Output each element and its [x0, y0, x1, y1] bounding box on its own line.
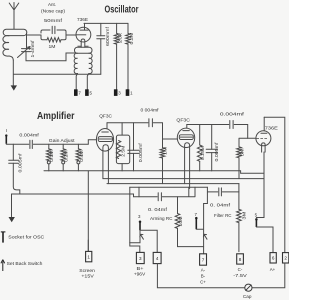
- resistor 0.4M gain adjust tap: [76, 144, 81, 171]
- resistor 10M arming: [175, 197, 203, 247]
- label 0.2M: [129, 32, 134, 45]
- wire: pin 7 to terminal 7 line: [196, 204, 203, 254]
- svg-text:Gain Adjust: Gain Adjust: [49, 138, 76, 143]
- label 1M: [49, 44, 56, 49]
- resistor 5M grid leak output tube: [237, 138, 248, 178]
- screen supply vertical wire to terminal 1: [87, 171, 89, 251]
- socket pin terminal 5 (oscillator): [85, 89, 92, 96]
- socket pin terminal 3 (oscillator): [114, 89, 121, 96]
- svg-text:B+: B+: [137, 266, 145, 271]
- wire: tank node to grid box: [27, 34, 42, 36]
- label 1M grid: [162, 146, 167, 155]
- legend text Set Back Switch: [7, 261, 43, 266]
- ground bus wire (amplifier left): [12, 194, 140, 197]
- title: Amplifier section: [37, 110, 75, 122]
- wire: output tube plate loop to terminal 2: [264, 117, 285, 252]
- svg-text:0. 04mf: 0. 04mf: [148, 207, 168, 212]
- svg-text:Set Back Switch: Set Back Switch: [7, 261, 43, 266]
- resistor 20k: [114, 23, 119, 89]
- grid leak box 50mmf / 1M: [41, 30, 66, 40]
- variable capacitor C1 1-4mmf: [18, 47, 31, 58]
- svg-text:3: 3: [139, 256, 142, 261]
- bottom wire from terminal 4 to terminal 2: [157, 263, 284, 288]
- oscillator top bus wire: [84, 22, 128, 24]
- cathode transformer top loop: [75, 46, 93, 53]
- ground symbol (amplifier): [9, 194, 15, 222]
- svg-text:0.005mf: 0.005mf: [18, 152, 23, 172]
- inductor tank winding left: [74, 53, 77, 73]
- svg-text:Filter RC: Filter RC: [214, 213, 232, 218]
- label 0.004mf interstage 2: [220, 112, 245, 117]
- svg-text:QF3C: QF3C: [176, 117, 190, 123]
- label Cap: [243, 294, 252, 299]
- socket contact pin 3: [138, 214, 141, 230]
- svg-text:0.005mf: 0.005mf: [214, 141, 219, 161]
- svg-text:A+: A+: [270, 267, 276, 272]
- label 2.5M: [121, 145, 126, 157]
- label QF3C second amplifier tube: [176, 117, 190, 123]
- terminal 8 C- -7.5V: [233, 254, 247, 278]
- label 10M: [178, 216, 183, 227]
- label Gain Adjust: [49, 138, 76, 143]
- label QF3C first amplifier tube: [99, 114, 112, 120]
- svg-text:I: I: [6, 128, 7, 133]
- svg-text:0.004mf: 0.004mf: [220, 112, 245, 117]
- terminal 4: [153, 252, 161, 263]
- capacitor 0.04mf filter: [219, 188, 222, 196]
- vacuum tube QF3C first amplifier pentode: [96, 123, 113, 184]
- svg-text:(Nose cap): (Nose cap): [41, 8, 65, 13]
- label 0.005mf second stage: [214, 141, 219, 161]
- socket contact pin 5: [255, 212, 258, 227]
- svg-text:QF3C: QF3C: [99, 114, 112, 120]
- capacitor 0.004mf interstage coupling 1: [149, 119, 153, 127]
- wire: coil right side down to variable cap: [26, 33, 28, 48]
- inductor tank winding right: [89, 53, 92, 73]
- resistor 2.5M plate load box: [116, 123, 129, 171]
- svg-text:20k: 20k: [117, 32, 122, 43]
- svg-text:0.4M: 0.4M: [79, 150, 84, 162]
- bus B2 wire: [103, 178, 264, 180]
- svg-text:+15V: +15V: [81, 274, 94, 279]
- svg-text:1: 1: [87, 254, 90, 259]
- label 5M: [240, 148, 245, 157]
- label 736E oscillator tube: [77, 17, 88, 22]
- capacitor 0.005mf first stage: [128, 123, 139, 171]
- svg-text:6: 6: [272, 256, 275, 261]
- set back switch contact on pin-7 line: [203, 234, 207, 239]
- svg-text:C-: C-: [238, 267, 243, 272]
- label Ant. (Nose cap): [41, 2, 65, 13]
- resistor 0.2M: [126, 23, 131, 89]
- capacitor 0.004mf input coupling: [30, 140, 32, 148]
- label 600mmf: [105, 26, 110, 46]
- svg-text:0.2M: 0.2M: [129, 32, 134, 45]
- svg-text:0.004mf: 0.004mf: [19, 132, 39, 137]
- svg-text:Ant.: Ant.: [48, 2, 56, 7]
- vacuum tube 736E output thyratron: [256, 117, 271, 152]
- socket pin terminal 7 (oscillator): [74, 89, 81, 96]
- socket pin terminal 1 (oscillator): [126, 89, 133, 96]
- svg-text:Amplifier: Amplifier: [37, 110, 75, 122]
- svg-text:B-: B-: [201, 273, 206, 278]
- bus B3 wire: [107, 183, 239, 185]
- svg-text:1M: 1M: [162, 146, 167, 155]
- amplifier top wire first stage: [107, 123, 177, 139]
- label 1-4mmf: [30, 40, 35, 58]
- svg-text:Cap: Cap: [243, 294, 252, 299]
- svg-text:-7.5V: -7.5V: [233, 273, 247, 278]
- label 0.005mf first stage: [138, 142, 143, 162]
- terminal 6 A+: [270, 253, 277, 272]
- svg-text:1M: 1M: [49, 44, 56, 49]
- resistor 0.2M gain adjust tap: [61, 144, 66, 171]
- capacitor 0.005mf second stage: [206, 125, 217, 171]
- capacitor 600mmf: [97, 23, 105, 74]
- terminal 1 screen supply: [79, 240, 95, 279]
- bus B4 wire: [130, 186, 208, 188]
- label 0.1M: [49, 150, 54, 162]
- wire: grid box to tube grid: [66, 34, 76, 36]
- svg-text:8: 8: [239, 257, 242, 262]
- wire: left winding to terminal 7: [76, 74, 77, 90]
- resistor 0.1M gain adjust tap: [47, 144, 52, 171]
- wire: right winding to terminal 5: [87, 74, 89, 90]
- ground symbol (oscillator): [11, 85, 17, 90]
- legend text Socket for OSC: [8, 235, 45, 240]
- svg-text:10M: 10M: [178, 216, 183, 227]
- amplifier top wire second stage: [187, 125, 256, 139]
- arming RC wire: [139, 187, 195, 196]
- label 0.004mf: [19, 132, 39, 137]
- label Filter RC: [214, 213, 232, 218]
- svg-text:0.005mf: 0.005mf: [138, 142, 143, 162]
- resistor 1M (grid leak): [47, 38, 61, 42]
- capacitor 0.04mf arming: [158, 193, 161, 201]
- bus B1 plate supply wire: [44, 171, 264, 174]
- set back switch contact on pin-3 line: [140, 230, 144, 243]
- label 3M filter: [241, 211, 246, 220]
- wire: variable cap bottom to cathode coil: [26, 52, 75, 61]
- wire: pin 5 to terminal 6: [256, 227, 273, 252]
- wire: amplifier input: [6, 140, 96, 145]
- svg-text:A-: A-: [201, 267, 206, 272]
- resistor 3M filter: [237, 184, 242, 252]
- label 50mmf: [44, 18, 63, 23]
- svg-text:2.5M: 2.5M: [121, 145, 126, 157]
- svg-text:C+: C+: [200, 279, 206, 284]
- svg-text:1-4mmf: 1-4mmf: [30, 40, 35, 58]
- svg-text:736E: 736E: [77, 17, 88, 22]
- detonator cap symbol: [245, 284, 252, 291]
- vacuum tube QF3C second amplifier pentode: [177, 125, 194, 189]
- socket contact pin 7: [194, 212, 197, 229]
- label 736E output tube: [265, 125, 278, 130]
- svg-text:+96V: +96V: [134, 271, 146, 276]
- antenna (nose cap aerial): [9, 3, 19, 30]
- inductor L1 antenna tank coil: [3, 29, 27, 60]
- terminal 2: [283, 253, 289, 263]
- ground riser wire at terminal-3 column: [129, 187, 131, 243]
- svg-text:3M: 3M: [241, 211, 246, 220]
- label 0.04mf arming: [148, 207, 168, 212]
- svg-text:7: 7: [202, 257, 205, 262]
- resistor 0.25M plate load second stage: [197, 125, 202, 171]
- svg-text:0. 04mf: 0. 04mf: [210, 202, 231, 207]
- svg-text:4: 4: [156, 256, 159, 261]
- wire: pin 3 jog to terminal 3: [130, 243, 140, 253]
- legend icon set back switch: [1, 260, 5, 271]
- label 20k: [117, 32, 122, 43]
- terminal 7 A- B- C+: [200, 254, 207, 285]
- wire: pin 3 to terminal 4: [140, 230, 157, 252]
- svg-text:5M: 5M: [240, 148, 245, 157]
- capacitor 0.005mf input shunt: [9, 144, 20, 194]
- label 0.25M: [200, 145, 205, 160]
- terminal 3 B+ 96V: [134, 252, 146, 276]
- label 0.004mf interstage 1: [141, 107, 160, 112]
- label Arming RC: [150, 216, 173, 221]
- legend icon socket contact: [1, 232, 6, 243]
- svg-text:0 004mf: 0 004mf: [141, 107, 160, 112]
- vacuum tube 736E oscillator triode: [76, 23, 91, 47]
- oscillator ground bus wire: [13, 60, 101, 85]
- capacitor 50mmf plates: [52, 26, 55, 33]
- filter RC wire: [204, 187, 239, 203]
- svg-text:0.25M: 0.25M: [200, 145, 205, 160]
- label 0.2M: [64, 150, 69, 162]
- svg-text:Screen: Screen: [79, 268, 95, 273]
- svg-text:0.2M: 0.2M: [64, 150, 69, 162]
- svg-text:2: 2: [284, 256, 287, 261]
- wire: output tube cathode down: [256, 152, 264, 218]
- resistor 1M grid leak second stage: [160, 139, 165, 184]
- svg-text:50mmf: 50mmf: [44, 18, 63, 23]
- label 0.04mf filter: [210, 202, 231, 207]
- svg-text:0.1M: 0.1M: [49, 150, 54, 162]
- capacitor 0.004mf interstage coupling 2: [230, 121, 233, 129]
- svg-text:600mmf: 600mmf: [105, 26, 110, 46]
- svg-text:Arming RC: Arming RC: [150, 216, 173, 221]
- label 0.4M: [79, 150, 84, 162]
- svg-text:Oscillator: Oscillator: [105, 4, 139, 16]
- title: Oscillator section: [105, 4, 139, 16]
- svg-text:736E: 736E: [265, 125, 278, 130]
- label 0.005mf: [18, 152, 23, 172]
- input contact I from oscillator socket: [5, 128, 7, 144]
- svg-text:Socket for OSC: Socket for OSC: [8, 235, 45, 240]
